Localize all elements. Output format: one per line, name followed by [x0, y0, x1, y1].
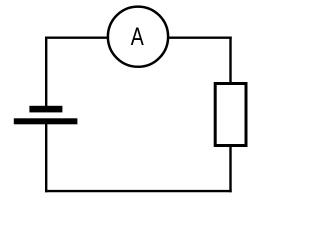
battery B1 long plate (positive terminal) [14, 118, 78, 124]
ammeter A1 body [108, 7, 168, 67]
wire left vertical lower (battery down to bottom wire) [45, 122, 47, 192]
wire right vertical lower (resistor down to bottom wire) [229, 144, 231, 192]
wire right vertical upper (top wire down to resistor) [229, 37, 231, 86]
svg-text:A: A [131, 22, 144, 50]
wire left vertical upper (top wire down to battery) [45, 37, 47, 109]
battery B1 short plate (negative terminal) [29, 106, 62, 113]
resistor R1 body [215, 84, 246, 146]
wire bottom horizontal [45, 190, 232, 192]
wire top horizontal (battery to resistor via ammeter) [45, 37, 232, 39]
